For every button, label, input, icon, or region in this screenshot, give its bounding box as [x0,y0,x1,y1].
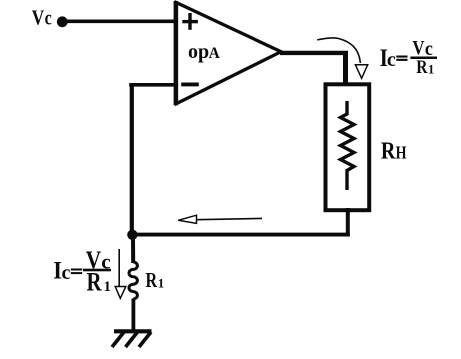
svg-text:R: R [146,269,158,293]
svg-text:1: 1 [104,279,112,295]
svg-text:R: R [87,268,103,297]
svg-text:R: R [416,57,428,78]
svg-text:R: R [381,137,396,164]
svg-text:c: c [387,49,396,71]
svg-text:c: c [62,262,71,284]
svg-text:c: c [45,7,52,29]
svg-text:c: c [101,249,110,273]
svg-text:1: 1 [428,62,434,76]
svg-text:op: op [188,41,209,63]
svg-text:H: H [396,144,407,163]
svg-text:V: V [32,7,44,30]
svg-text:A: A [209,45,221,62]
svg-text:1: 1 [158,275,165,290]
